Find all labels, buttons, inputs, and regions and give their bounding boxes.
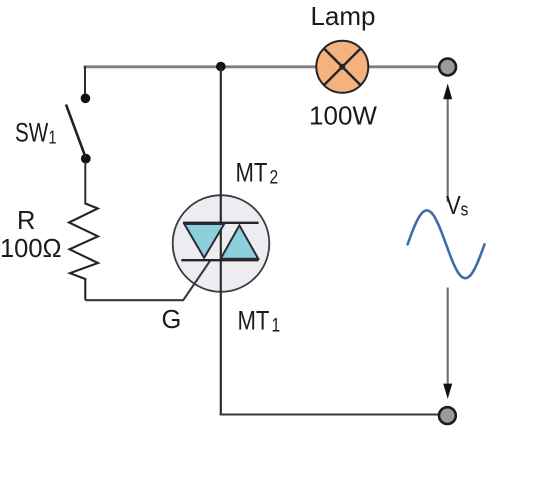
triac top bar (MT2 electrode): [183, 222, 259, 224]
triac U1 body circle: [173, 195, 270, 292]
triac left triangle (down-pointing): [184, 224, 224, 258]
svg-text:V: V: [446, 191, 461, 220]
wire: top rail right segment (lamp to terminal): [368, 65, 439, 68]
svg-text:Lamp: Lamp: [310, 1, 375, 31]
label SW1: [15, 118, 57, 148]
svg-text:2: 2: [270, 166, 279, 188]
label Vs: [446, 191, 468, 220]
wire: top rail left segment (corner to lamp): [84, 65, 317, 68]
svg-text:100W: 100W: [309, 100, 377, 130]
label G (gate): [162, 306, 182, 334]
label Lamp: [310, 1, 375, 31]
label MT2: [236, 159, 279, 189]
svg-text:1: 1: [272, 314, 281, 336]
lamp (100W): [316, 41, 368, 93]
switch SW1: [66, 94, 91, 164]
source sine wave: [408, 210, 485, 278]
arrow down (Vs bottom): [443, 288, 452, 400]
label MT1: [238, 307, 281, 337]
label 100 ohm: [0, 235, 62, 263]
svg-text:SW: SW: [15, 118, 49, 148]
wire: center vertical MT2/MT1 lead: [220, 67, 222, 415]
svg-text:1: 1: [49, 127, 57, 148]
wire: bottom rail (triac to bottom terminal): [220, 414, 439, 416]
node: junction dot on top rail: [216, 62, 226, 72]
arrow up (Vs top): [443, 84, 452, 203]
wire: resistor bottom to gate: [85, 260, 210, 300]
svg-text:R: R: [17, 207, 35, 235]
terminal: top right: [439, 59, 456, 76]
wire: switch to resistor: [84, 162, 86, 205]
resistor R: [69, 204, 98, 301]
svg-text:G: G: [162, 306, 182, 334]
label R: [17, 207, 35, 235]
svg-text:s: s: [461, 198, 469, 220]
triac right triangle (up-pointing): [221, 225, 259, 258]
svg-text:MT: MT: [236, 159, 268, 189]
label 100W: [309, 100, 377, 130]
wire: left vertical drop from corner: [84, 66, 86, 96]
triac bottom bar (MT1 electrode): [181, 259, 258, 261]
svg-text:100Ω: 100Ω: [0, 235, 62, 263]
terminal: bottom right: [439, 407, 456, 424]
svg-text:MT: MT: [238, 307, 270, 337]
